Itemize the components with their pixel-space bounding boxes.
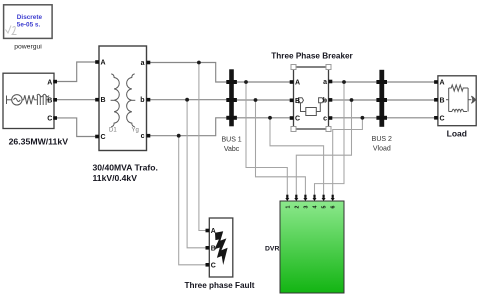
svg-text:BUS 1: BUS 1 <box>221 137 241 144</box>
svg-text:2: 2 <box>294 205 300 208</box>
svg-text:D1: D1 <box>109 128 117 134</box>
svg-text:B: B <box>211 246 216 253</box>
svg-text:4: 4 <box>313 205 319 208</box>
svg-text:c: c <box>141 133 145 140</box>
svg-text:B: B <box>101 97 106 104</box>
svg-text:3: 3 <box>303 205 309 208</box>
svg-text:c: c <box>323 116 327 123</box>
svg-text:b: b <box>140 97 144 104</box>
svg-text:Vload: Vload <box>373 145 391 152</box>
svg-text:B: B <box>440 97 445 104</box>
svg-text:B: B <box>295 98 300 105</box>
svg-text:Load: Load <box>447 128 467 138</box>
svg-text:5: 5 <box>322 205 328 208</box>
svg-text:a: a <box>323 79 327 86</box>
svg-text:C: C <box>101 134 106 141</box>
svg-text:5e-05 s.: 5e-05 s. <box>17 22 41 29</box>
svg-text:Three Phase Breaker: Three Phase Breaker <box>271 52 353 61</box>
svg-text:30/40MVA Trafo.: 30/40MVA Trafo. <box>93 163 158 173</box>
svg-text:11kV/0.4kV: 11kV/0.4kV <box>93 173 138 183</box>
svg-text:DVR: DVR <box>265 246 279 253</box>
svg-text:BUS 2: BUS 2 <box>372 136 392 143</box>
svg-text:Yg: Yg <box>132 128 139 134</box>
svg-text:A: A <box>295 80 300 87</box>
svg-text:C: C <box>211 263 216 270</box>
svg-text:b: b <box>323 98 327 105</box>
svg-text:Three phase Fault: Three phase Fault <box>184 281 254 290</box>
svg-text:C: C <box>47 116 52 123</box>
svg-text:26.35MW/11kV: 26.35MW/11kV <box>9 136 69 146</box>
svg-text:powergui: powergui <box>14 43 42 50</box>
svg-text:A: A <box>440 80 445 87</box>
svg-text:A: A <box>47 79 52 86</box>
svg-text:A: A <box>211 228 216 235</box>
svg-text:B: B <box>47 98 52 105</box>
svg-text:a: a <box>141 60 145 67</box>
svg-text:Vabc: Vabc <box>224 146 240 153</box>
svg-text:C: C <box>295 116 300 123</box>
svg-text:1: 1 <box>285 205 291 208</box>
svg-text:6: 6 <box>331 205 337 208</box>
svg-text:A: A <box>101 60 106 67</box>
svg-text:Discrete: Discrete <box>17 14 43 21</box>
svg-text:C: C <box>440 115 445 122</box>
